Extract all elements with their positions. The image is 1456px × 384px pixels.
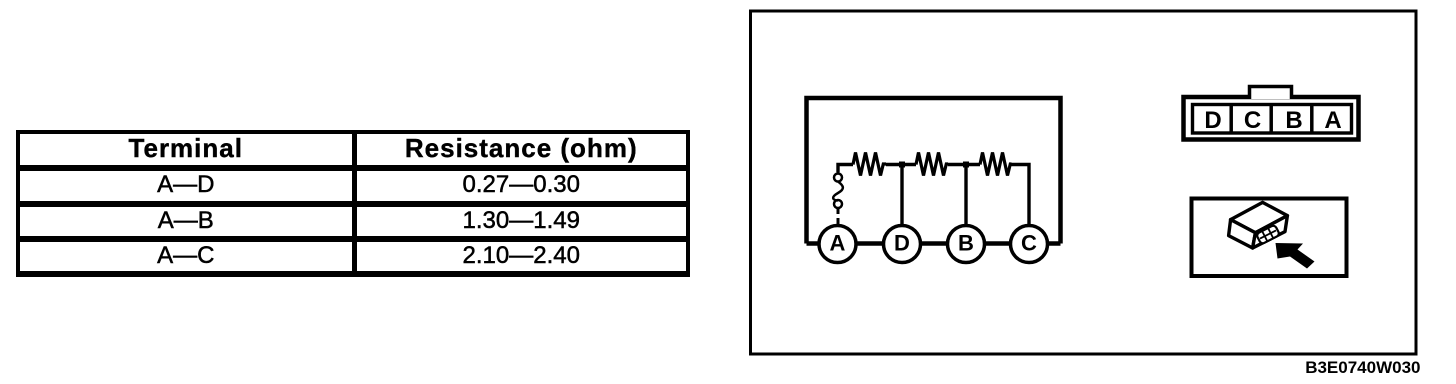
value label: 0.27-0.30 ohm (357, 170, 687, 200)
wire: tap down to terminal B (964, 165, 967, 227)
pointer arrow to connector (1276, 243, 1315, 269)
flexible coil wire to terminal A (833, 165, 843, 227)
svg-text:A: A (1324, 107, 1341, 134)
table header cell: Resistance (ohm) (357, 133, 687, 163)
connector 3D icon: left end face (1229, 220, 1256, 248)
pin C (1244, 107, 1261, 134)
wire: R2 to R3 (948, 163, 980, 166)
value label: 2.10-2.40 ohm (357, 241, 687, 271)
resistor R3 (980, 153, 1012, 176)
pin B (1285, 107, 1302, 134)
svg-text:C: C (1244, 107, 1261, 134)
table cell: terminals A-D (20, 170, 352, 200)
node C (terminal) (1011, 226, 1048, 263)
connector pinout: inner cavity frame (1193, 105, 1352, 134)
connector pinout: outer shell (1184, 97, 1359, 140)
node A (terminal) (819, 226, 856, 263)
pin D (1204, 107, 1221, 134)
svg-text:C: C (1021, 231, 1037, 256)
junction: node D tap (899, 162, 905, 168)
sender unit housing outline (807, 98, 1061, 244)
resistor R2 (916, 153, 948, 176)
wire: tap down to terminal D (900, 165, 903, 227)
value label: 1.30-1.49 ohm (357, 206, 687, 236)
svg-text:B: B (958, 231, 974, 256)
connector 3D icon: front face (1253, 216, 1288, 248)
svg-text:B3E0740W030: B3E0740W030 (1305, 358, 1420, 377)
connector pinout: index tab (1250, 87, 1292, 100)
node B (terminal) (948, 226, 985, 263)
figure number label (1305, 358, 1420, 377)
resistor R1 (853, 153, 886, 176)
connector pinout: cell dividers (1231, 105, 1312, 134)
junction: node B tap (963, 162, 969, 168)
svg-text:D: D (894, 231, 910, 256)
table cell: terminals A-B (20, 206, 352, 236)
svg-text:A: A (830, 231, 846, 256)
svg-text:B: B (1285, 107, 1302, 134)
connector 3D icon: top face (1231, 202, 1288, 232)
wire: R1 to R2 (886, 163, 916, 166)
table header cell: Terminal (20, 133, 352, 163)
connector location callout box (1192, 199, 1347, 277)
connector 3D icon: socket grid (1256, 225, 1280, 245)
pin A (1324, 107, 1341, 134)
wire: top lead left corner (838, 165, 853, 173)
svg-text:D: D (1204, 107, 1221, 134)
table grid: resistance spec table frame (16, 130, 690, 134)
wire: bottom bus through terminals (807, 241, 1061, 246)
table cell: terminals A-C (20, 241, 352, 271)
figure frame (751, 11, 1417, 354)
wire: R3 to terminal C drop (1012, 165, 1030, 227)
node D (terminal) (884, 226, 921, 263)
